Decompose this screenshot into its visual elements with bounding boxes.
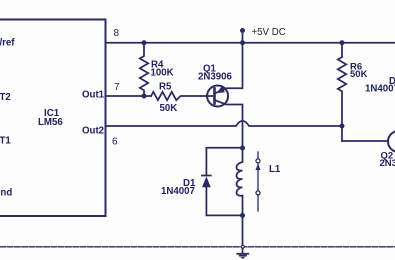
svg-text:R5: R5 xyxy=(159,82,172,93)
svg-text:Out1: Out1 xyxy=(82,90,105,101)
ground symbol xyxy=(237,254,248,256)
node rail-R4 junction xyxy=(142,40,147,45)
transistor Q1 emitter arrow xyxy=(216,86,225,93)
transistor Q1 collector xyxy=(215,100,243,148)
wire +5V stub xyxy=(242,31,244,43)
resistor R4 xyxy=(140,43,148,96)
svg-text:VT2: VT2 xyxy=(0,92,11,103)
svg-text:gnd: gnd xyxy=(0,188,12,199)
svg-text:VT1: VT1 xyxy=(0,136,11,147)
svg-text:V/ref: V/ref xyxy=(0,38,15,49)
svg-text:1N4007: 1N4007 xyxy=(161,186,195,197)
L1 plunger circle top xyxy=(256,159,260,163)
svg-text:100K: 100K xyxy=(151,68,174,79)
transistor Q1 circle xyxy=(207,86,228,107)
svg-text:L1: L1 xyxy=(269,164,281,175)
node pin7-R4-R5 junction xyxy=(142,94,147,99)
ground rail dashed xyxy=(0,246,395,248)
transistor Q1 emitter xyxy=(215,43,243,94)
svg-text:1N4007: 1N4007 xyxy=(365,84,395,95)
svg-text:50K: 50K xyxy=(350,69,368,80)
wire D1 loop top xyxy=(206,148,242,176)
svg-text:2N3906: 2N3906 xyxy=(380,158,395,169)
svg-text:50K: 50K xyxy=(160,103,178,114)
node pin6-R6 junction xyxy=(340,124,345,129)
svg-text:Out2: Out2 xyxy=(82,126,104,137)
svg-text:6: 6 xyxy=(112,137,118,148)
svg-text:LM56: LM56 xyxy=(38,117,63,128)
node rail-R6 junction xyxy=(340,40,345,45)
wire pin6 Out2 with hop xyxy=(106,121,343,126)
wire pin7 Out1 xyxy=(106,95,152,97)
L1 plunger line xyxy=(257,152,259,211)
IC box IC1 xyxy=(0,20,106,217)
wire to Q2 base xyxy=(342,140,388,142)
wire +5V rail xyxy=(106,42,395,44)
svg-text:8: 8 xyxy=(114,28,120,39)
svg-text:2N3906: 2N3906 xyxy=(198,72,233,83)
L1 plunger circle bottom xyxy=(256,191,260,195)
diode D1 bar xyxy=(202,175,211,177)
svg-text:+5V DC: +5V DC xyxy=(252,27,286,38)
node +5V terminal dot xyxy=(240,28,245,33)
ground symbol triangle xyxy=(240,257,245,259)
resistor R6 xyxy=(338,43,346,141)
diode D1 triangle xyxy=(202,177,211,188)
transistor Q1 base bar xyxy=(213,89,216,104)
node rail-Q1 junction xyxy=(240,40,245,45)
transistor Q2 circle xyxy=(388,131,395,152)
L1 plunger arrow xyxy=(255,164,260,170)
resistor R5 xyxy=(151,92,214,100)
node coil bottom junction xyxy=(240,213,245,218)
node ground rail connection xyxy=(241,245,245,249)
wire coil bottom to ground rail xyxy=(242,215,244,253)
node coil top junction xyxy=(240,146,245,151)
wire D1 loop bottom xyxy=(206,187,242,215)
svg-text:7: 7 xyxy=(114,82,120,93)
inductor L1 xyxy=(237,148,243,215)
